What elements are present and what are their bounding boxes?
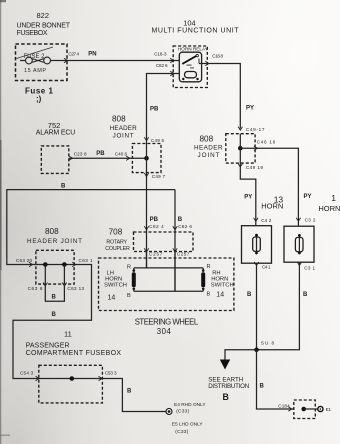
svg-text:C3 2: C3 2: [305, 218, 316, 223]
svg-text:SWITCH: SWITCH: [104, 283, 127, 289]
RH horn switch: [201, 264, 233, 299]
svg-text:B: B: [61, 184, 66, 190]
svg-text:C4 1: C4 1: [262, 265, 271, 270]
wire B steering wheel to left side: [7, 184, 175, 265]
wire B header joint to passenger fusebox: [13, 265, 92, 379]
horn relay: [178, 47, 209, 82]
passenger compartment fusebox 11: [26, 330, 122, 403]
svg-text:;): ;): [36, 95, 42, 104]
svg-text:C49 5: C49 5: [151, 138, 165, 143]
svg-text:C27 4: C27 4: [68, 51, 79, 56]
svg-text:JOINT: JOINT: [113, 133, 134, 140]
horn 1: [284, 193, 340, 262]
svg-text:(C33): (C33): [175, 429, 188, 435]
pin C46-18: [254, 140, 276, 151]
pin C16-8: [205, 54, 223, 66]
svg-text:PASSENGER: PASSENGER: [26, 343, 70, 350]
pin C23-8: [69, 152, 87, 161]
svg-text:ROTARY: ROTARY: [106, 240, 127, 246]
under-bonnet fusebox 822: [16, 11, 71, 104]
rotary coupler 708: [105, 228, 193, 252]
svg-text:11: 11: [64, 330, 72, 339]
svg-text:C49 19: C49 19: [246, 165, 263, 170]
svg-text:JOINT: JOINT: [198, 152, 220, 159]
svg-text:E1: E1: [326, 407, 332, 412]
pin C62-6: [156, 63, 174, 76]
pin C82-6: [173, 224, 193, 230]
svg-text:COMPARTMENT FUSEBOX: COMPARTMENT FUSEBOX: [26, 350, 122, 357]
svg-text:C63 20: C63 20: [16, 258, 33, 263]
pin C3-1: [297, 262, 315, 271]
svg-text:B: B: [223, 392, 229, 402]
LH horn switch: [104, 265, 136, 302]
svg-text:ALARM ECU: ALARM ECU: [36, 130, 76, 137]
svg-text:C257: C257: [177, 252, 190, 257]
wire B horn 1 to splice: [257, 262, 309, 350]
svg-text:14: 14: [108, 295, 116, 302]
svg-text:FUSEBOX: FUSEBOX: [17, 30, 48, 37]
svg-text:822: 822: [37, 11, 50, 20]
pin C54-3: [20, 371, 39, 381]
svg-text:PB: PB: [96, 151, 105, 157]
svg-text:C16 8: C16 8: [212, 54, 223, 59]
svg-text:C63 1: C63 1: [79, 258, 93, 263]
svg-text:LH: LH: [107, 271, 114, 277]
svg-text:104: 104: [183, 19, 196, 28]
svg-text:C49-17: C49-17: [246, 127, 265, 132]
svg-text:HEADER: HEADER: [110, 125, 137, 132]
pin C63-13: [62, 283, 84, 292]
svg-text:PY: PY: [304, 194, 312, 200]
svg-text:C4 2: C4 2: [261, 218, 272, 223]
pin C257 (left): [144, 248, 162, 256]
wire B loop under header joint: [45, 286, 64, 301]
wire PY header joint to horn 13: [240, 163, 256, 226]
steering wheel 304: [99, 258, 234, 336]
pin C53-3: [99, 371, 117, 381]
wire B splice to earth point: [257, 350, 294, 409]
svg-text:B: B: [52, 312, 57, 318]
wire PY relay to header joint: [199, 64, 254, 129]
svg-text:B: B: [260, 384, 265, 390]
svg-text:1: 1: [331, 193, 336, 203]
svg-text:(C33): (C33): [176, 409, 189, 415]
svg-text:C257: C257: [149, 252, 163, 257]
svg-text:E4 RHD ONLY: E4 RHD ONLY: [174, 402, 206, 408]
pin C18-3: [154, 51, 174, 62]
svg-text:HORN: HORN: [211, 277, 228, 283]
svg-text:C184: C184: [278, 403, 290, 408]
svg-text:C82 6: C82 6: [178, 224, 192, 229]
pin C63-20: [16, 258, 33, 267]
wire R rail: [134, 267, 203, 269]
svg-text:HEADER: HEADER: [194, 145, 223, 152]
svg-text:B: B: [127, 293, 131, 299]
splice SU8: [254, 340, 274, 352]
svg-text:C18-3: C18-3: [154, 51, 167, 56]
svg-text:PB: PB: [150, 107, 159, 113]
svg-text:708: 708: [109, 228, 123, 237]
pin C49-5: [144, 137, 164, 143]
svg-text:RH: RH: [212, 271, 220, 277]
wire B rotary coupler to B rail: [175, 190, 183, 292]
multi function unit 104: [152, 19, 240, 88]
svg-text:808: 808: [112, 115, 126, 124]
svg-text:B: B: [127, 389, 132, 395]
svg-text:MULTI FUNCTION UNIT: MULTI FUNCTION UNIT: [152, 28, 240, 35]
svg-text:C53 3: C53 3: [105, 371, 117, 376]
wire PY header joint to horn 1: [240, 148, 311, 226]
wire PB relay to header joint: [147, 74, 180, 144]
svg-text:R: R: [207, 264, 211, 270]
svg-text:DISTRIBUTION: DISTRIBUTION: [208, 383, 249, 390]
svg-text:HORN: HORN: [318, 204, 340, 213]
svg-text:E5 LHD ONLY: E5 LHD ONLY: [172, 422, 204, 428]
svg-text:SWITCH: SWITCH: [211, 283, 234, 289]
wire B fusebox to earth E4/E5: [102, 379, 165, 412]
svg-text:C46 18: C46 18: [257, 140, 276, 145]
connector C184: [278, 403, 292, 411]
svg-text:B: B: [303, 292, 308, 298]
pin C4-1: [254, 262, 271, 270]
pin C63-1: [72, 258, 93, 267]
svg-text:C63 13: C63 13: [67, 286, 84, 291]
svg-text:PY: PY: [244, 195, 252, 201]
pin C49-7: [144, 173, 165, 179]
pin C40-6: [115, 152, 130, 161]
svg-text:B: B: [207, 292, 211, 298]
svg-text:C62 6: C62 6: [156, 63, 168, 68]
svg-text:C40 6: C40 6: [115, 152, 128, 157]
svg-text:STEERING WHEEL: STEERING WHEEL: [135, 318, 199, 327]
svg-text:UNDER BONNET: UNDER BONNET: [17, 23, 71, 30]
wire PB alarm ECU to header joint: [69, 151, 147, 158]
svg-text:304: 304: [157, 327, 172, 336]
svg-text:C82 4: C82 4: [149, 224, 164, 229]
wire PN fusebox to relay: [51, 52, 180, 61]
svg-text:C63 8: C63 8: [28, 286, 43, 291]
wire B horn 13 to splice: [247, 263, 257, 350]
horn 13: [242, 195, 284, 264]
svg-text:808: 808: [45, 227, 59, 236]
svg-text:HORN RELAY: HORN RELAY: [178, 47, 209, 52]
svg-text:B: B: [52, 295, 57, 301]
svg-text:HORN: HORN: [105, 277, 122, 283]
wire PB coupler to R rail: [146, 252, 148, 268]
svg-text:HORN: HORN: [261, 202, 283, 211]
svg-text:C23 8: C23 8: [74, 152, 87, 157]
wire B rail: [134, 290, 203, 292]
pin C257 (right): [173, 248, 190, 256]
fuse F1 15 AMP: [17, 47, 54, 74]
pin C63-8: [28, 283, 48, 292]
svg-text:B: B: [178, 217, 183, 223]
svg-text:PY: PY: [246, 106, 254, 112]
pin C82-4: [144, 224, 164, 230]
pin C4-2: [254, 218, 272, 223]
svg-text:PB: PB: [150, 217, 159, 223]
svg-text:C49 7: C49 7: [152, 174, 166, 179]
svg-text:SU 8: SU 8: [261, 340, 275, 345]
svg-text:PN: PN: [88, 52, 96, 58]
connector C27/4: [64, 51, 80, 62]
svg-text:COUPLER: COUPLER: [105, 246, 130, 252]
header joint 808 (left): [27, 227, 82, 284]
svg-text:15 AMP: 15 AMP: [24, 68, 46, 74]
svg-text:C54 3: C54 3: [20, 371, 34, 376]
header joint 808 (right): [194, 134, 255, 163]
svg-text:B: B: [247, 292, 252, 298]
svg-text:14: 14: [216, 292, 224, 299]
earth arrow: see earth distribution: [208, 350, 256, 402]
svg-text:C3 1: C3 1: [304, 266, 315, 271]
pin C49-17: [238, 127, 265, 133]
pin C3-2: [296, 218, 316, 223]
connector E4/E5 earth: [166, 402, 206, 435]
alarm ECU 752: [36, 121, 76, 173]
svg-text:R: R: [127, 265, 131, 271]
pin C49-19: [238, 164, 263, 171]
header joint 808 (centre): [110, 115, 161, 173]
wire B coupler to B rail: [174, 252, 176, 292]
earth point E1: [294, 400, 332, 419]
svg-text:HEADER JOINT: HEADER JOINT: [27, 238, 82, 245]
svg-text:808: 808: [200, 135, 214, 144]
wire PB header joint to rotary coupler: [147, 173, 159, 268]
